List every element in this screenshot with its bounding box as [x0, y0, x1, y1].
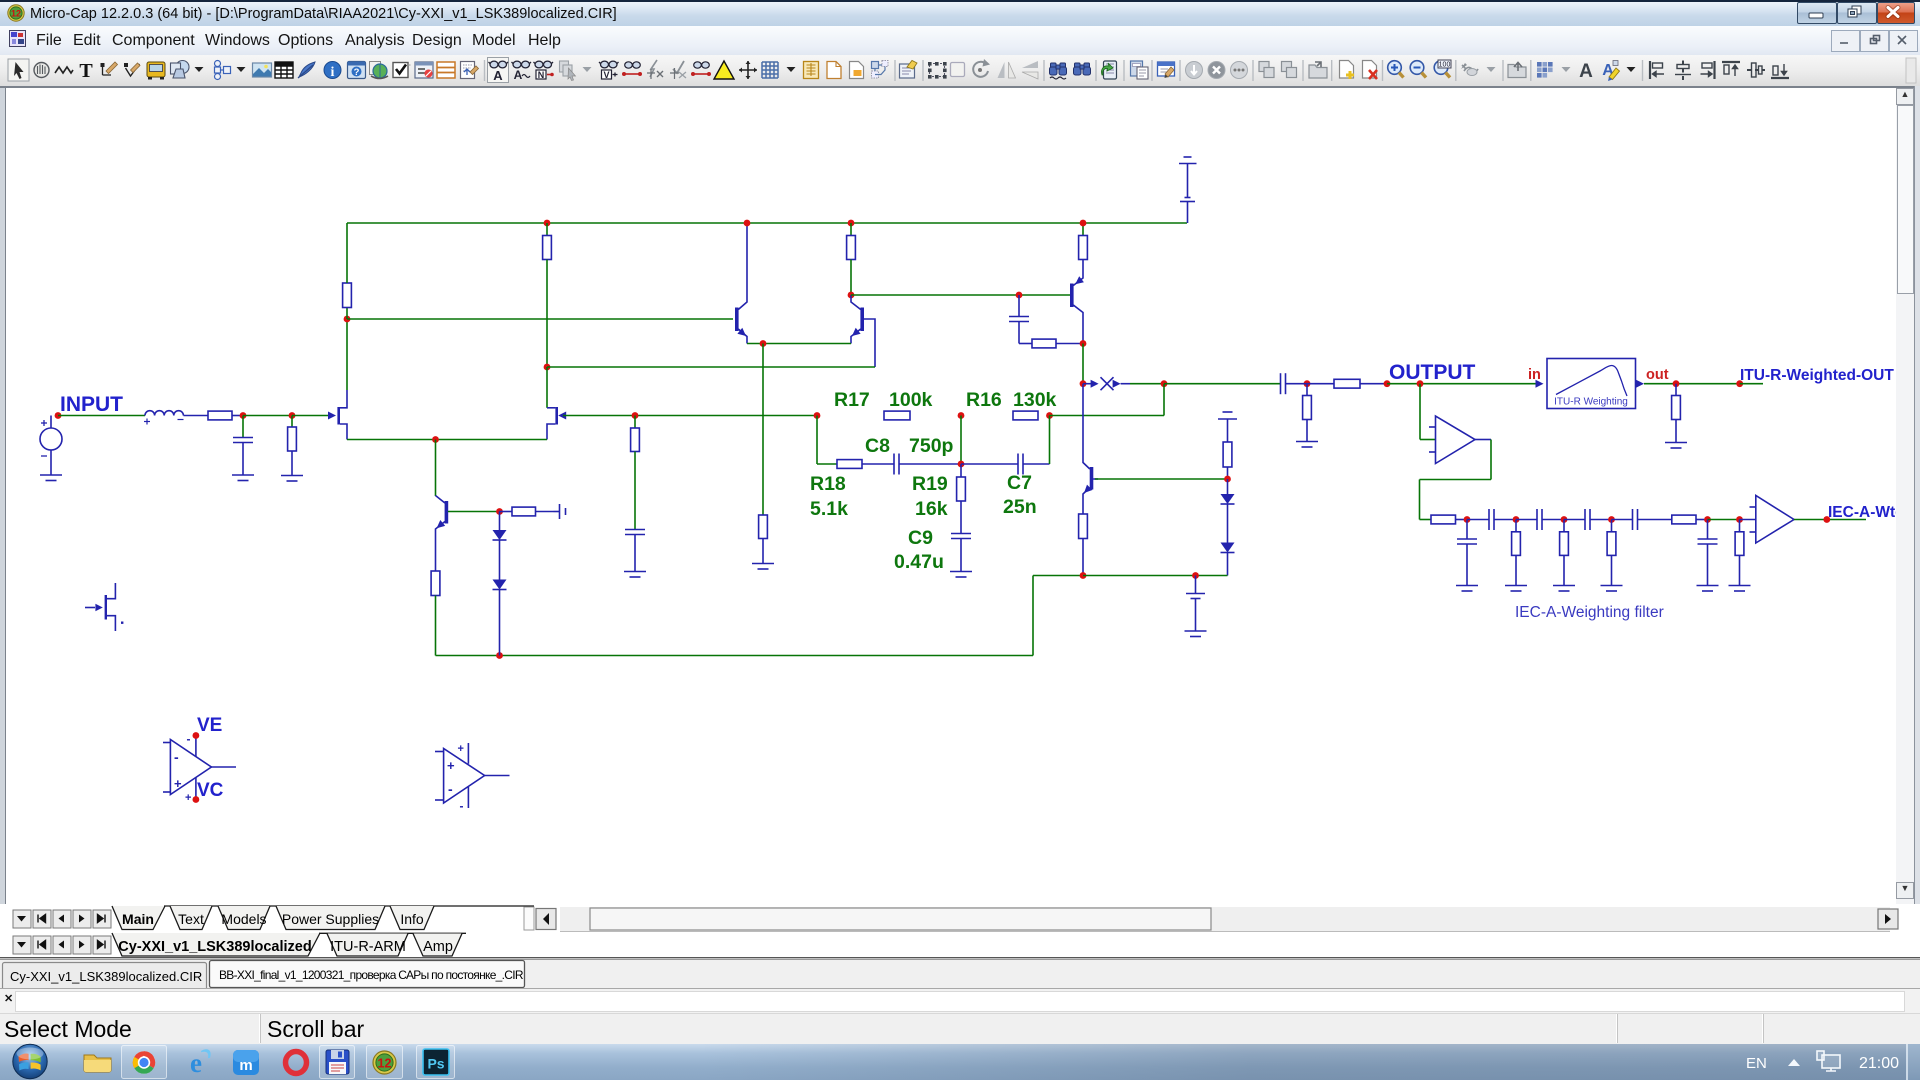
svg-text:ITU-R Weighting: ITU-R Weighting — [1554, 397, 1628, 408]
capacitor C11 — [1516, 509, 1564, 530]
node dot — [1080, 572, 1087, 579]
svg-text:Models: Models — [221, 911, 266, 927]
svg-text:BB-XXI_final_v1_1200321_провер: BB-XXI_final_v1_1200321_проверка САРы по… — [219, 968, 524, 982]
label 100k — [889, 389, 933, 411]
resistor R8 — [1079, 223, 1088, 260]
svg-text:+: + — [447, 758, 455, 773]
svg-text:?: ? — [354, 67, 360, 78]
wire — [1420, 519, 1432, 521]
capacitor C13 — [1612, 509, 1672, 530]
wire — [58, 415, 145, 417]
svg-text:-: - — [187, 732, 191, 746]
node dot — [544, 220, 551, 227]
battery V3 — [554, 504, 566, 519]
label 25n — [1003, 496, 1037, 518]
wire — [435, 440, 437, 497]
ground — [281, 476, 303, 482]
label C9 — [908, 527, 933, 549]
svg-text:ITU-R-Weighted-OUT: ITU-R-Weighted-OUT — [1740, 367, 1894, 384]
battery V2 — [1179, 157, 1197, 223]
resistor R25 — [1607, 520, 1616, 586]
svg-text:R18: R18 — [810, 473, 846, 495]
svg-text:A: A — [514, 68, 523, 82]
ground — [1553, 586, 1575, 592]
npn transistor Q4 — [851, 295, 875, 367]
diode D3 — [1221, 479, 1235, 543]
svg-text:750p: 750p — [909, 435, 954, 457]
resistor R12 — [1079, 514, 1088, 576]
svg-text:Info: Info — [400, 911, 424, 927]
svg-text:5.1k: 5.1k — [810, 498, 848, 520]
microcap button — [367, 1046, 403, 1079]
pin in — [1528, 367, 1544, 388]
svg-text:in: in — [1528, 367, 1541, 383]
resistor R26 — [1735, 520, 1744, 586]
node VC — [193, 780, 224, 803]
ground — [40, 475, 62, 481]
label C8 — [865, 435, 890, 457]
wire emitters — [747, 343, 851, 345]
resistor R18 — [837, 460, 862, 469]
capacitor C10 — [1467, 509, 1516, 530]
resistor R3 — [343, 223, 352, 319]
node dot — [496, 652, 503, 659]
wire — [1286, 383, 1308, 385]
label R17 — [834, 389, 870, 411]
wire — [1420, 440, 1492, 520]
pnp transistor Q5 — [1072, 260, 1084, 344]
op-amp X2 — [1750, 496, 1795, 544]
capacitor C14 — [1457, 520, 1477, 586]
svg-text:R17: R17 — [834, 389, 870, 411]
resistor R16 — [1013, 411, 1038, 420]
node INPUT — [60, 393, 123, 416]
ground — [1697, 586, 1719, 592]
resistor R17 — [884, 411, 910, 420]
wire — [817, 416, 837, 465]
svg-text:N: N — [538, 70, 545, 80]
node dot — [848, 292, 855, 299]
label 130k — [1013, 389, 1057, 411]
wire — [547, 366, 875, 368]
node dot — [1608, 516, 1615, 523]
ground — [950, 572, 972, 578]
svg-text:-: - — [448, 781, 453, 797]
chrome frame — [122, 1046, 167, 1079]
resistor R21 — [1431, 515, 1467, 524]
photoshop button — [417, 1046, 455, 1079]
resistor R11 — [500, 507, 554, 516]
node dot — [848, 220, 855, 227]
resistor R24 — [1560, 520, 1569, 586]
capacitor C7 — [961, 454, 1050, 475]
ground — [1456, 586, 1478, 592]
node dot — [1224, 476, 1231, 483]
wire — [347, 318, 733, 320]
ground — [1296, 442, 1318, 448]
capacitor C12 — [1564, 509, 1612, 530]
label 16k — [915, 498, 948, 520]
wire — [184, 415, 209, 417]
IE — [190, 1048, 211, 1078]
svg-text:IEC-A-Weighting filter: IEC-A-Weighting filter — [1515, 604, 1664, 621]
svg-text:e: e — [190, 1048, 202, 1078]
svg-text:VE: VE — [197, 715, 222, 736]
wire — [1095, 478, 1228, 480]
node IEC-A-Wtd — [1828, 504, 1905, 521]
node dot — [1704, 516, 1711, 523]
capacitor C9 — [951, 534, 971, 572]
capacitor C15 — [1698, 520, 1718, 586]
wire — [346, 319, 348, 390]
resistor R5 — [631, 416, 640, 530]
wire — [347, 222, 1187, 224]
label 5.1k — [810, 498, 848, 520]
pin out — [1636, 367, 1669, 388]
wire — [347, 439, 547, 441]
ground — [1185, 631, 1207, 637]
node dot — [1016, 292, 1023, 299]
node dot — [496, 508, 503, 515]
node dot — [55, 412, 62, 419]
svg-text:+: + — [185, 792, 191, 804]
node dot — [1046, 412, 1053, 419]
node dot — [544, 364, 551, 371]
node VE — [193, 715, 223, 739]
node dot — [1464, 516, 1471, 523]
node dot — [1080, 340, 1087, 347]
ground — [1665, 443, 1687, 449]
label 750p — [909, 435, 954, 457]
wire — [1794, 519, 1866, 521]
resistor R1 — [208, 411, 243, 420]
label R19 — [912, 473, 948, 495]
wire — [1420, 384, 1436, 440]
svg-text:A: A — [1579, 61, 1593, 82]
svg-text:out: out — [1646, 367, 1669, 383]
node dot — [344, 316, 351, 323]
label C7 — [1007, 472, 1032, 494]
switch S1 — [1083, 377, 1164, 390]
jfet J3 — [85, 583, 123, 631]
wire — [1164, 383, 1281, 385]
svg-text:Power Supplies: Power Supplies — [282, 911, 379, 927]
wire — [851, 294, 1070, 296]
node OUTPUT — [1389, 361, 1476, 384]
svg-text:i: i — [331, 65, 335, 80]
resistor R19 — [957, 464, 966, 534]
svg-text:100: 100 — [1439, 62, 1451, 69]
diode D2 — [493, 580, 507, 656]
node dot — [1513, 516, 1520, 523]
capacitor C8 — [862, 454, 961, 475]
node dot — [432, 436, 439, 443]
maxthon — [233, 1050, 259, 1075]
node dot — [1736, 380, 1743, 387]
svg-text:ITU-R-ARM: ITU-R-ARM — [330, 939, 406, 955]
capacitor C4 — [1281, 373, 1286, 394]
wire — [546, 367, 548, 408]
svg-text:Text: Text — [178, 911, 204, 927]
node dot — [1384, 380, 1391, 387]
node dot — [1304, 380, 1311, 387]
op-amp X3 — [163, 732, 236, 804]
wire — [1050, 384, 1165, 416]
ground — [624, 572, 646, 578]
svg-text:25n: 25n — [1003, 496, 1037, 518]
svg-text:Amp: Amp — [423, 939, 453, 955]
node dot — [632, 412, 639, 419]
svg-text:130k: 130k — [1013, 389, 1057, 411]
svg-text:A: A — [493, 68, 503, 83]
svg-text:C8: C8 — [865, 435, 890, 457]
capacitor C3 — [1009, 295, 1032, 344]
label R18 — [810, 473, 846, 495]
svg-text:16k: 16k — [915, 498, 948, 520]
diode D4 — [1221, 543, 1235, 576]
opera — [286, 1052, 307, 1074]
wire — [563, 415, 817, 417]
node dot — [240, 412, 247, 419]
ground — [232, 475, 254, 481]
node dot — [1192, 572, 1199, 579]
wire — [1387, 383, 1536, 385]
svg-text:C7: C7 — [1007, 472, 1032, 494]
ground — [752, 564, 774, 570]
capacitor C1 — [233, 416, 253, 476]
wire — [960, 416, 962, 465]
wire — [1708, 519, 1740, 521]
node dot — [1736, 516, 1743, 523]
macro ITU-R Weighting — [1547, 359, 1636, 409]
node dot — [1561, 516, 1568, 523]
folder — [84, 1055, 111, 1072]
resistor R14 — [1303, 384, 1312, 442]
ground — [1601, 586, 1623, 592]
label IEC-A-Weighting filter — [1515, 604, 1664, 621]
node dot — [958, 461, 965, 468]
ground — [1505, 586, 1527, 592]
resistor R22 — [1672, 515, 1708, 524]
node dot — [289, 412, 296, 419]
svg-text:+: + — [174, 776, 182, 791]
voltage source V1 — [40, 416, 62, 476]
svg-text:V: V — [603, 70, 609, 80]
wire — [1083, 575, 1228, 577]
svg-text:IEC-A-Wtd: IEC-A-Wtd — [1828, 504, 1896, 521]
svg-text:C9: C9 — [908, 527, 933, 549]
svg-text:100k: 100k — [889, 389, 933, 411]
resistor R4 — [543, 223, 552, 367]
svg-text:Ps: Ps — [427, 1056, 444, 1072]
capacitor C2 — [625, 530, 645, 572]
battery V4 — [1218, 412, 1237, 442]
op-amp X1 — [1429, 416, 1491, 464]
node dot — [1080, 220, 1087, 227]
svg-text:12: 12 — [378, 1057, 392, 1071]
svg-text:-: - — [460, 799, 464, 813]
wire — [436, 655, 1034, 657]
svg-text:R19: R19 — [912, 473, 948, 495]
wire — [1049, 416, 1051, 465]
svg-text:12: 12 — [11, 8, 21, 18]
wire — [762, 344, 764, 516]
svg-text:Cy-XXI_v1_LSK389localized.CIR: Cy-XXI_v1_LSK389localized.CIR — [10, 969, 202, 984]
node dot — [1161, 380, 1168, 387]
diode D1 — [493, 512, 507, 580]
ground — [1729, 586, 1751, 592]
wire — [1033, 576, 1083, 656]
resistor R15 — [1307, 379, 1387, 388]
floppy button — [320, 1046, 355, 1079]
resistor R23 — [1512, 520, 1521, 586]
svg-text:0.47u: 0.47u — [894, 551, 944, 573]
node dot — [1673, 380, 1680, 387]
resistor R10 — [431, 571, 440, 656]
node dot — [1080, 380, 1087, 387]
resistor R9 — [1032, 339, 1083, 348]
npn transistor Q3 — [737, 223, 747, 344]
resistor R20 — [1672, 384, 1681, 443]
node dot — [744, 220, 751, 227]
node dot — [958, 412, 965, 419]
resistor R2 — [288, 416, 297, 476]
label 0.47u — [894, 551, 944, 573]
node dot — [1823, 516, 1830, 523]
svg-text:m: m — [239, 1057, 252, 1074]
wire — [1644, 383, 1740, 385]
node dot — [814, 412, 821, 419]
svg-text:-: - — [174, 749, 179, 765]
svg-text:Cy-XXI_v1_LSK389localized: Cy-XXI_v1_LSK389localized — [118, 939, 311, 955]
resistor R7 — [759, 515, 768, 564]
npn transistor Q7 — [1083, 384, 1098, 514]
svg-text:T: T — [79, 60, 93, 82]
svg-text:VC: VC — [197, 780, 224, 801]
battery V5 — [1186, 576, 1205, 632]
wire — [243, 415, 292, 417]
jfet J2 — [547, 407, 566, 440]
label R16 — [966, 389, 1002, 411]
wire — [1082, 344, 1084, 384]
node ITU-R-Weighted-OUT — [1740, 367, 1894, 384]
jfet J1 — [328, 390, 347, 440]
svg-text:OUTPUT: OUTPUT — [1389, 361, 1476, 384]
resistor R13 — [1223, 442, 1232, 479]
wire — [1740, 383, 1763, 385]
svg-text:R16: R16 — [966, 389, 1002, 411]
svg-text:Main: Main — [122, 911, 154, 927]
inductor L1 — [144, 411, 184, 425]
svg-text:INPUT: INPUT — [60, 393, 123, 416]
wire — [292, 415, 328, 417]
npn transistor Q6 — [436, 496, 447, 572]
wire — [1740, 519, 1756, 521]
op-amp X4 — [435, 743, 510, 813]
node dot — [1417, 380, 1424, 387]
resistor R6 — [847, 223, 856, 295]
svg-text:+: + — [458, 743, 464, 755]
svg-text:21:00: 21:00 — [1859, 1055, 1899, 1072]
wire — [448, 511, 500, 513]
node dot — [760, 340, 767, 347]
